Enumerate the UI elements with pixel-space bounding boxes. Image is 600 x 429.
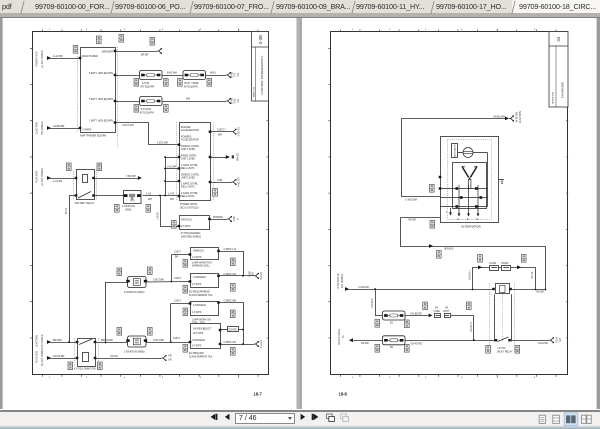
- single page icon: [539, 415, 545, 423]
- svg-text:FLASH MIRROR TSA: FLASH MIRROR TSA: [189, 294, 213, 297]
- svg-text:Y-A GR: Y-A GR: [260, 272, 263, 280]
- svg-text:+THXPS: +THXPS: [82, 129, 92, 132]
- diode D3: [228, 327, 239, 332]
- svg-text:METER PANEL: METER PANEL: [338, 327, 341, 344]
- svg-text:CONTROL POWER/SUPPLY: CONTROL POWER/SUPPLY: [260, 55, 264, 94]
- diode unit D2: [126, 336, 147, 347]
- relay K3 coil: [496, 284, 510, 294]
- svg-text:C-B72 BR: C-B72 BR: [153, 278, 164, 281]
- wire: D2 to lamp feeds: [146, 342, 190, 344]
- svg-text:SWINGER: SWINGER: [102, 51, 114, 54]
- wire: ignition to U2: [143, 195, 180, 197]
- svg-text:JUNCTION: JUNCTION: [36, 335, 39, 347]
- svg-text:WIRE 0100: WIRE 0100: [253, 86, 255, 97]
- relay K3 body: [494, 294, 496, 341]
- wire: [47, 176, 51, 180]
- wire: [98, 338, 100, 366]
- svg-text:(ECU) UNIT EQU: (ECU) UNIT EQU: [180, 206, 199, 209]
- svg-text:C-B72 Y: C-B72 Y: [217, 129, 226, 132]
- grid ticks top: [42, 30, 260, 32]
- svg-text:INT EQUIPN: INT EQUIPN: [140, 111, 154, 114]
- svg-text:WH: WH: [252, 272, 255, 276]
- wire: [511, 340, 549, 342]
- svg-text:DIO RD: DIO RD: [229, 328, 238, 331]
- wire: [47, 56, 51, 60]
- svg-text:CHARGING: CHARGING: [561, 81, 565, 98]
- svg-text:Y-B2 WH: Y-B2 WH: [126, 175, 136, 178]
- svg-text:UNIT1 SUB3: UNIT1 SUB3: [181, 148, 195, 151]
- svg-text:(1) IDY POWER: (1) IDY POWER: [41, 50, 44, 67]
- svg-text:C-B72: C-B72: [173, 337, 180, 340]
- wire row A with fuse F1: [115, 75, 140, 77]
- svg-text:REL1 UNIT1: REL1 UNIT1: [181, 167, 195, 170]
- wire W4: BR bus: [401, 218, 546, 290]
- bottom pins with arrows: [459, 208, 478, 214]
- svg-text:GN-P2 RD: GN-P2 RD: [411, 342, 423, 345]
- wire: [213, 122, 215, 200]
- svg-text:1-T4JPS: 1-T4JPS: [192, 256, 202, 259]
- svg-text:WINDER: WINDER: [213, 216, 223, 219]
- pin: [114, 50, 117, 52]
- svg-text:2-IGNITION SW(A): 2-IGNITION SW(A): [124, 291, 145, 294]
- wire: riser to diode block D1: [105, 282, 107, 343]
- wire: [73, 170, 75, 200]
- svg-text:BT-Y2: BT-Y2: [531, 271, 534, 278]
- battery relay K2: [78, 339, 96, 367]
- lamp unit L4: [191, 324, 221, 349]
- alternator pins: [439, 176, 442, 178]
- svg-text:GN-B2 R: GN-B2 R: [470, 322, 473, 332]
- wire: [473, 152, 488, 154]
- stator symbol: [463, 148, 473, 158]
- diode V pair: [462, 167, 477, 178]
- right window edge: [597, 18, 600, 409]
- continuous icon: [553, 415, 560, 423]
- pin: [114, 100, 117, 102]
- prev: [225, 414, 230, 420]
- svg-text:WH: WH: [148, 198, 152, 201]
- svg-text:W-1B: W-1B: [65, 208, 68, 214]
- fuse F5: [383, 336, 406, 345]
- svg-text:POWER SUP: POWER SUP: [36, 51, 39, 66]
- title block: [549, 32, 568, 108]
- wire: K2 out upper to diode D2: [95, 342, 128, 344]
- wire: [219, 275, 255, 277]
- diode unit D1: [126, 277, 147, 288]
- svg-text:GN-GN-L: GN-GN-L: [469, 269, 472, 280]
- svg-text:(1) KEY POWER: (1) KEY POWER: [41, 168, 44, 186]
- engine room unit U3: [180, 216, 210, 230]
- svg-text:C-B72: C-B72: [174, 299, 181, 302]
- facing (selected, blue): [564, 413, 578, 426]
- svg-text:INT EQUIPN: INT EQUIPN: [141, 85, 155, 88]
- lamp unit L2: [191, 274, 219, 288]
- wire: relay out to arrow: [94, 178, 138, 180]
- control unit U1 (amp/trainer equip): [81, 48, 116, 133]
- wire: [502, 294, 504, 341]
- grid numbers bottom: [49, 29, 240, 379]
- svg-text:AMP TRAINER EQUIPN: AMP TRAINER EQUIPN: [80, 135, 106, 138]
- svg-text:C-B2: C-B2: [217, 179, 223, 182]
- svg-text:JACKY RELAY: JACKY RELAY: [497, 350, 513, 353]
- regulator: [452, 144, 458, 158]
- svg-text:C-W02 BR: C-W02 BR: [406, 199, 418, 202]
- fuse links D4: [435, 314, 441, 318]
- svg-text:2-T4JPS: 2-T4JPS: [181, 225, 191, 228]
- prev view icon: [327, 414, 335, 421]
- svg-text:REL2 UNIT2: REL2 UNIT2: [181, 186, 195, 189]
- node tag 1-D5: [97, 36, 102, 44]
- svg-text:C-D72 WH: C-D72 WH: [122, 124, 134, 127]
- svg-text:JUNCTION: JUNCTION: [36, 122, 39, 134]
- svg-text:SEL2 UNIT1: SEL2 UNIT1: [181, 195, 195, 198]
- svg-text:RD RD: RD RD: [361, 342, 369, 345]
- svg-text:C-B872 L-R: C-B872 L-R: [224, 248, 237, 251]
- svg-text:SWITCH1: SWITCH1: [181, 219, 192, 222]
- svg-text:C-B872 WH: C-B872 WH: [224, 300, 237, 303]
- battery relay K1: [77, 170, 95, 200]
- svg-text:1-T4JPS: 1-T4JPS: [192, 283, 202, 286]
- wire: [176, 122, 178, 200]
- pin: [79, 127, 82, 129]
- svg-text:GN-A RD: GN-A RD: [538, 342, 548, 345]
- svg-text:0-3B: 0-3B: [258, 35, 263, 44]
- grid numbers bottom: [352, 29, 536, 379]
- svg-text:(ANTI0ED SHENG: (ANTI0ED SHENG: [181, 235, 201, 238]
- svg-text:BR BUS: BR BUS: [445, 248, 454, 251]
- svg-text:BR4-BR: BR4-BR: [53, 339, 62, 342]
- svg-text:GR: GR: [168, 355, 172, 358]
- svg-text:SLAVE MIRROR TSA: SLAVE MIRROR TSA: [189, 355, 213, 358]
- fuse F1: [140, 71, 163, 80]
- svg-text:RD: RD: [559, 338, 562, 342]
- svg-text:Y-A GR: Y-A GR: [260, 340, 263, 348]
- wire: [74, 338, 76, 366]
- lamp unit L1: [191, 248, 219, 260]
- wire W3: R terminal: [401, 217, 441, 219]
- svg-text:C-B72: C-B72: [174, 277, 181, 280]
- svg-text:WH-B2: WH-B2: [237, 152, 240, 160]
- svg-text:C-B872 GR: C-B872 GR: [224, 341, 237, 344]
- svg-text:CN-B2: CN-B2: [489, 262, 497, 265]
- wire: [47, 356, 51, 360]
- ignition switch S1: [124, 191, 142, 204]
- svg-text:WH: WH: [170, 198, 174, 201]
- svg-text:UNIT2 SUB2: UNIT2 SUB2: [181, 176, 195, 179]
- svg-text:1 BATT +B20 EQUIPN: 1 BATT +B20 EQUIPN: [89, 120, 113, 123]
- svg-text:(B) POWER: (B) POWER: [41, 334, 44, 347]
- wire row C to control box: [116, 123, 180, 145]
- svg-text:UNIT1 SUB2: UNIT1 SUB2: [181, 157, 195, 160]
- svg-text:BR: BR: [175, 256, 179, 259]
- rectifier bus rows with diodes: [441, 185, 488, 209]
- svg-text:SWING01: SWING01: [193, 250, 204, 253]
- svg-text:IGN POWER: IGN POWER: [341, 274, 344, 288]
- svg-text:GN-B2 RD: GN-B2 RD: [411, 312, 423, 315]
- svg-text:W-T4JPS: W-T4JPS: [193, 332, 204, 335]
- svg-text:REGULATOR: REGULATOR: [454, 144, 457, 157]
- wire: [489, 283, 491, 353]
- pin: [114, 121, 117, 123]
- svg-text:GN GN: GN GN: [110, 355, 118, 358]
- wire: [220, 344, 254, 346]
- svg-text:18-8: 18-8: [339, 392, 348, 397]
- svg-text:GN-B2 WH: GN-B2 WH: [493, 115, 505, 118]
- left window edge: [0, 18, 3, 409]
- svg-text:2-IGNITION SW(B): 2-IGNITION SW(B): [124, 351, 145, 354]
- wire: [96, 170, 98, 200]
- svg-text:WH: WH: [186, 98, 190, 101]
- node tag: [73, 46, 78, 54]
- svg-text:Y-B2 GR: Y-B2 GR: [238, 177, 241, 187]
- svg-text:WARNING EQU: WARNING EQU: [192, 265, 210, 268]
- svg-text:5 BATT +B20 EQUIPN: 5 BATT +B20 EQUIPN: [89, 72, 113, 75]
- U2 right terminals: [210, 131, 232, 133]
- fuse F3: [140, 97, 163, 106]
- svg-text:GR: GR: [168, 359, 172, 362]
- wire: [487, 153, 489, 207]
- svg-text:BATTERY RELAY: BATTERY RELAY: [75, 202, 94, 205]
- trunk wire down: [70, 196, 77, 343]
- svg-text:FUSE: FUSE: [434, 310, 441, 313]
- rectifier: [453, 163, 487, 209]
- wire: [448, 140, 492, 220]
- pin: [79, 57, 82, 59]
- power control unit U2: [180, 123, 211, 201]
- svg-text:H-S: H-S: [131, 200, 136, 203]
- svg-text:1-A2 WH: 1-A2 WH: [167, 165, 177, 168]
- svg-text:C-A52 RD: C-A52 RD: [358, 286, 369, 289]
- node tag: [150, 38, 155, 46]
- svg-text:ACCELERATOR: ACCELERATOR: [181, 129, 199, 132]
- wire: [47, 126, 51, 130]
- svg-text:WH: WH: [218, 134, 222, 137]
- wire: K2 out lower to fork: [95, 358, 162, 360]
- svg-text:CHARGE02: CHARGE02: [193, 304, 207, 307]
- svg-text:C-B872 GR: C-B872 GR: [224, 273, 237, 276]
- facing continuous icon: [582, 415, 592, 423]
- title block: [252, 32, 269, 102]
- wire: [514, 283, 516, 353]
- svg-text:1-A72: 1-A72: [168, 192, 175, 195]
- svg-text:RD-BUS: RD-BUS: [371, 298, 374, 308]
- svg-text:18-7: 18-7: [254, 392, 263, 397]
- svg-text:1-T4JPS: 1-T4JPS: [192, 345, 202, 348]
- svg-text:8-B2 WH: 8-B2 WH: [167, 72, 177, 75]
- svg-text:BATT: BATT: [444, 310, 450, 313]
- svg-text:FUSE BOX: FUSE BOX: [36, 351, 39, 363]
- svg-text:GN-B2 BR: GN-B2 BR: [53, 125, 65, 128]
- wire: [512, 289, 545, 291]
- svg-text:C-B72: C-B72: [174, 250, 181, 253]
- wire: [77, 47, 79, 132]
- svg-text:INT EQUIPN: INT EQUIPN: [184, 85, 198, 88]
- svg-text:KY-TQU GMW STW: KY-TQU GMW STW: [74, 368, 96, 371]
- wire: D1 to lamp feeds: [146, 281, 190, 284]
- svg-text:ACCELERATOR: ACCELERATOR: [181, 138, 199, 141]
- svg-text:Y-R2 GR: Y-R2 GR: [238, 127, 241, 137]
- svg-text:FUSE BOX (2): FUSE BOX (2): [337, 273, 340, 289]
- svg-text:JUNCTION: JUNCTION: [519, 111, 522, 123]
- svg-text:CHARGE01: CHARGE01: [193, 276, 207, 279]
- svg-text:1-B72 WH: 1-B72 WH: [157, 142, 168, 145]
- wire: top row to terminal: [115, 51, 157, 53]
- first page |<: [211, 414, 218, 420]
- svg-text:GN-S2 BR: GN-S2 BR: [53, 355, 65, 358]
- page separator: [297, 18, 302, 409]
- svg-text:5 BATT +B20 EQUIPN: 5 BATT +B20 EQUIPN: [89, 98, 113, 101]
- tab bar: [0, 0, 600, 13]
- wire: switch row to ignition: [94, 195, 125, 197]
- wire: [219, 303, 244, 345]
- svg-text:1-B BR: 1-B BR: [157, 212, 160, 220]
- alternator G1 outer box: [441, 137, 499, 223]
- svg-text:ON REV/BQUST: ON REV/BQUST: [193, 328, 212, 331]
- fuse F4: [383, 311, 406, 320]
- bottom toolbar: [0, 410, 600, 429]
- last page >|: [312, 414, 319, 420]
- svg-text:U-A2 BR: U-A2 BR: [53, 55, 63, 58]
- svg-text:BR BR: BR BR: [141, 54, 149, 57]
- wire: [219, 252, 244, 276]
- svg-text:WH/1: WH/1: [210, 72, 217, 75]
- svg-text:CHARGE03: CHARGE03: [192, 339, 206, 342]
- wire: [210, 219, 228, 221]
- svg-text:MAIN POWER: MAIN POWER: [82, 55, 98, 58]
- right edge pin: [498, 179, 504, 181]
- L pin arrow: [450, 208, 452, 213]
- lamp unit L3: [191, 302, 219, 316]
- svg-text:IYE BR: IYE BR: [408, 219, 416, 222]
- pin: [114, 74, 117, 76]
- fuse F2: [183, 71, 206, 80]
- wire: riser to engine-room box: [161, 196, 180, 227]
- svg-text:C-B72 BR: C-B72 BR: [153, 339, 164, 342]
- svg-text:04: 04: [556, 36, 561, 41]
- svg-text:GROUP 0400: GROUP 0400: [552, 91, 554, 104]
- wire row B with fuse F3: [115, 101, 140, 103]
- svg-text:1-T4JPS: 1-T4JPS: [192, 311, 202, 314]
- svg-text:1-A2: 1-A2: [146, 192, 152, 195]
- wire C: riser and fuses: [375, 289, 377, 315]
- wire: [47, 340, 51, 344]
- node tag: [119, 35, 124, 43]
- wire W1/W2: B+ loop to junction: [402, 119, 506, 197]
- svg-text:(B) POWER: (B) POWER: [41, 121, 44, 134]
- svg-text:FUSE BOX: FUSE BOX: [36, 171, 39, 183]
- svg-text:IYE BR: IYE BR: [536, 291, 544, 294]
- wire: [117, 47, 119, 148]
- svg-text:ALTERNATOR: ALTERNATOR: [461, 225, 482, 229]
- left feeds riser: [165, 157, 167, 196]
- svg-text:2-A2 RD: 2-A2 RD: [53, 180, 62, 183]
- svg-text:BR/GN-BR: BR/GN-BR: [101, 339, 113, 342]
- svg-text:D5-B2: D5-B2: [502, 262, 509, 265]
- svg-text:SW01: SW01: [125, 208, 132, 211]
- bypass fuse loop: [473, 268, 536, 290]
- next: [301, 414, 306, 420]
- wire: [220, 329, 228, 331]
- svg-text:(2) KEY POWER: (2) KEY POWER: [41, 348, 44, 366]
